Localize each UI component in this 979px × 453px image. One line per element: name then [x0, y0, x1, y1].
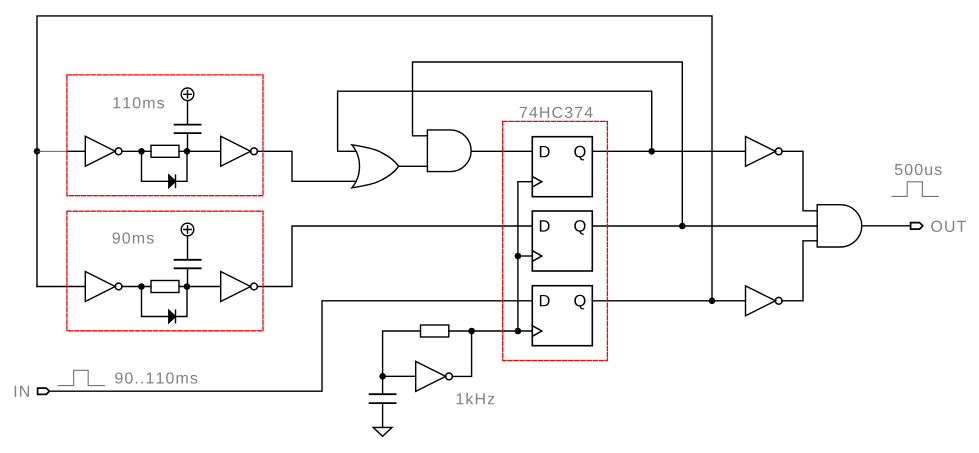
resistor R3	[421, 325, 449, 337]
wire F1 feedback Q2 to AND gate upper input	[413, 62, 683, 226]
node Q3 junction dot	[709, 298, 714, 303]
pulse symbol 500us	[892, 182, 938, 197]
wire inverter U8 output to AND2 bottom input	[782, 241, 817, 301]
node junction dot left	[139, 149, 144, 154]
wire input stub	[37, 286, 85, 288]
pin label FF2 D	[540, 220, 550, 231]
node osc output junction dot	[469, 328, 474, 333]
node junction dot right	[184, 149, 189, 154]
wire AND1 output to FF1 D	[472, 150, 532, 152]
pin label FF1 D	[540, 146, 550, 157]
wire IN to FF3 D	[49, 301, 532, 391]
inverter U1	[85, 136, 115, 166]
wire inverter U7 output to AND2 top input	[782, 151, 817, 211]
wire to resistor	[122, 286, 151, 288]
wire resistor to node	[179, 150, 221, 152]
inverter U8	[746, 286, 783, 316]
wire resistor to output	[449, 330, 472, 332]
DELAY BLOCK 110ms	[37, 88, 257, 188]
wire resistor to node	[179, 286, 221, 288]
red dashed box 90ms	[67, 211, 263, 331]
terminal IN	[38, 388, 50, 394]
wire to resistor	[122, 150, 151, 152]
DELAY BLOCK 90ms	[37, 223, 257, 323]
wire clock stub FF2	[518, 255, 532, 257]
wire Q1 to inverter U7	[592, 150, 745, 152]
label IN	[15, 386, 29, 397]
and-gate U6	[427, 130, 471, 172]
power supply VCC	[181, 88, 194, 101]
label 1kHz	[457, 393, 495, 405]
wire osc input	[383, 375, 416, 377]
pin label FF2 Q	[574, 220, 585, 235]
wire W1 top feedback from Q3 to delay inputs	[37, 16, 712, 301]
74HC374 box (red dashed)	[503, 121, 608, 360]
flip-flop FF3	[532, 286, 592, 346]
label OUT	[931, 221, 966, 232]
wire input stub (thin outside box)	[37, 150, 68, 152]
node Q1 junction dot	[649, 149, 654, 154]
and-gate U9 output	[817, 205, 862, 247]
OSCILLATOR 1kHz	[370, 325, 475, 436]
wire F2 feedback Q1 to OR gate upper input	[338, 91, 652, 151]
node clock FF2 junction dot	[515, 253, 520, 258]
node clock FF3 junction dot	[515, 328, 520, 333]
pulse symbol IN	[58, 370, 104, 385]
diode D2 bypass	[142, 287, 169, 317]
inverter U10	[416, 361, 446, 391]
label 110ms	[113, 97, 164, 108]
node junction dot left	[139, 284, 144, 289]
node Q2 junction dot	[680, 223, 685, 228]
wire osc feedback left	[383, 331, 421, 376]
resistor R1	[151, 145, 179, 157]
wire AND2 output to OUT	[862, 225, 911, 227]
wire Q3 to inverter U8	[592, 300, 745, 302]
wire 90ms output to FF2 D	[257, 226, 532, 287]
wire clock bus vertical	[518, 182, 532, 331]
node N1 junction dot at delay inputs	[34, 149, 39, 154]
inverter U2	[221, 136, 251, 166]
label 90..110ms	[115, 372, 197, 383]
node osc input junction dot	[380, 374, 385, 379]
resistor R2	[151, 281, 179, 293]
red dashed box 110ms	[67, 75, 263, 196]
capacitor C3	[370, 393, 396, 395]
flip-flop FF2	[532, 211, 592, 271]
inverter U7	[746, 137, 783, 167]
inverter U3	[85, 272, 115, 302]
ground	[373, 427, 392, 436]
pin label FF3 Q	[574, 295, 585, 310]
wire 110ms output to OR gate lower input	[257, 151, 355, 181]
wire Q2 to AND2 middle input	[592, 225, 817, 227]
inverter U4	[221, 272, 251, 302]
capacitor C1	[175, 132, 201, 134]
or-gate U5	[352, 145, 399, 188]
capacitor C2	[175, 267, 201, 269]
terminal OUT	[911, 223, 923, 230]
wire OR output to AND input	[399, 165, 428, 167]
label 74HC374	[520, 107, 593, 118]
label 500us	[895, 164, 942, 175]
pin label FF1 Q	[574, 146, 585, 161]
wire oscillator output to FF3 clock	[472, 330, 533, 332]
wire osc output riser	[452, 331, 471, 376]
pin label FF3 D	[540, 295, 550, 306]
label 90ms	[113, 232, 154, 243]
diode D1 bypass	[142, 151, 169, 181]
node junction dot right	[184, 284, 189, 289]
power supply VCC	[181, 223, 194, 236]
flip-flop FF1	[532, 137, 592, 197]
